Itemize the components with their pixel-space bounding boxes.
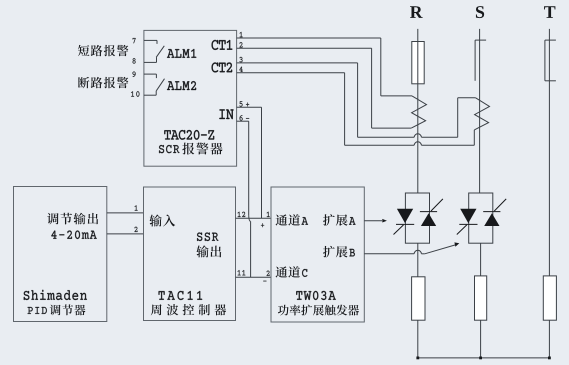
pin 3 — [240, 57, 243, 62]
wire pin3 to S CT top — [237, 63, 476, 137]
pin 2 - — [263, 271, 269, 282]
junction node R-neutral — [416, 357, 419, 360]
wire pin5+ to trigger bus — [237, 107, 262, 218]
label CT1 — [212, 40, 233, 50]
load resistor S phase — [475, 276, 487, 320]
label PID调节器 — [28, 304, 86, 315]
label IN — [219, 109, 233, 119]
label Shimaden — [24, 290, 87, 300]
wire S load to neutral bus — [480, 320, 482, 358]
wire phase S drop — [479, 29, 481, 193]
label 扩展A extension A — [323, 214, 355, 226]
fuse FR — [412, 42, 424, 84]
label 扩展B extension B — [323, 246, 355, 258]
pin 2 (4-20mA -) — [134, 227, 137, 232]
label CT2 — [212, 62, 233, 72]
wire pin2 to R CT bottom — [237, 48, 412, 128]
wire Shimaden out2 to TAC11 input — [107, 233, 144, 235]
label SCR报警器 — [159, 143, 222, 155]
pin 7 — [133, 38, 136, 43]
label TW03A — [296, 291, 336, 300]
wire phase T drop — [548, 29, 550, 276]
wire pin4 to S CT bottom — [237, 73, 475, 146]
wire extension B trigger to S SCR — [364, 242, 459, 253]
fuse FS — [475, 40, 486, 81]
label 4-20mA — [51, 231, 96, 239]
label TAC11 — [159, 291, 203, 300]
pin 1 + — [261, 212, 270, 228]
wire pin6- to trigger bus — [237, 121, 251, 277]
thyristor module R (anti-parallel SCR pair) — [394, 193, 443, 243]
CT coil on phase S — [474, 98, 489, 130]
wire extension A trigger arrow to R SCR — [364, 219, 387, 223]
wire TAC11 pin12 to TW03A pin1 (trigger +) — [236, 217, 272, 219]
pin 1 (4-20mA +) — [135, 205, 138, 210]
relay contact ALM1 — [144, 40, 164, 62]
junction node T-neutral — [548, 357, 551, 360]
label 断路报警 open-circuit alarm — [78, 77, 128, 88]
label TAC20-Z — [164, 130, 214, 140]
instrument U2 Shimaden PID controller box — [14, 187, 107, 322]
IC U1 TAC20-Z SCR alarm unit box — [144, 30, 237, 166]
wire TAC11 pin11 to TW03A pin2 (trigger -) — [236, 276, 272, 278]
CT coil on phase R — [411, 96, 426, 128]
label 周波控制器 — [151, 304, 226, 315]
wire T load to neutral bus — [548, 320, 550, 358]
fuse FT — [545, 40, 556, 81]
label 调节输出 — [47, 213, 98, 225]
wire phase R drop — [417, 29, 419, 193]
label 通道C channel C — [276, 266, 308, 277]
IC U4 TW03A power expansion trigger box — [271, 187, 364, 322]
load resistor R phase — [412, 277, 425, 320]
label phase R — [410, 6, 423, 18]
label ALM1 — [167, 49, 196, 58]
label phase T — [544, 6, 555, 18]
pin 10 — [131, 91, 139, 96]
junction node S-neutral — [479, 357, 482, 360]
label 通道A channel A — [276, 214, 308, 225]
label 短路报警 short-circuit alarm — [78, 45, 128, 56]
thyristor module S (anti-parallel SCR pair) — [457, 193, 506, 243]
wire neutral bus — [418, 357, 550, 359]
pin 2 — [239, 42, 242, 47]
load resistor T phase — [543, 276, 556, 320]
wire R load to neutral bus — [417, 320, 419, 358]
wire R SCR to load — [417, 243, 419, 277]
pin 11 — [238, 270, 246, 275]
pin 9 — [133, 71, 136, 76]
pin 6 - — [240, 115, 250, 120]
relay contact ALM2 — [144, 74, 165, 95]
pin 1 — [240, 32, 243, 37]
pin 12 — [238, 212, 246, 217]
label phase S — [476, 6, 484, 18]
label 功率扩展触发器 — [278, 305, 359, 316]
wire pin1 to R CT top — [237, 38, 412, 96]
IC U3 TAC11 cycle controller box — [144, 187, 236, 321]
label 输入 input — [149, 214, 175, 226]
pin 5 + — [239, 101, 249, 106]
pin 8 — [133, 58, 136, 63]
wire S SCR to load — [480, 243, 482, 276]
pin 4 — [239, 67, 242, 72]
label ALM2 — [167, 81, 196, 90]
wire Shimaden out1 to TAC11 input — [107, 212, 144, 214]
label SSR输出 — [196, 233, 221, 258]
